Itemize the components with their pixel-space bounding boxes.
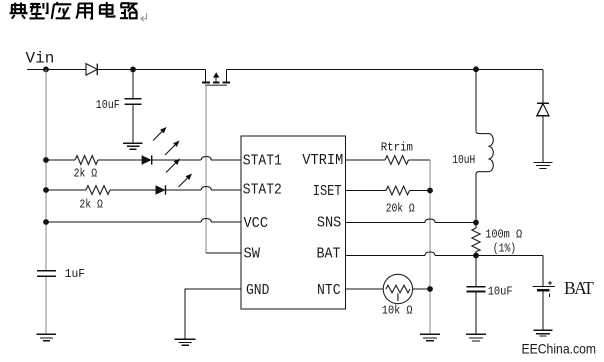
wire STAT1 — [46, 159, 241, 161]
node STAT2 rail — [43, 187, 49, 193]
svg-text:(1%): (1%) — [493, 241, 516, 255]
resistor R3 20k — [386, 186, 410, 195]
resistor R2 2k — [86, 186, 110, 195]
node VCC rail — [43, 219, 49, 225]
wire hop STAT1 over gate lead — [201, 157, 211, 161]
wire Vin rail top — [27, 68, 543, 70]
wire NTC — [346, 288, 431, 290]
wire right vertical bus — [429, 160, 431, 334]
svg-text:BAT: BAT — [317, 245, 341, 262]
ground right bus — [420, 334, 440, 341]
node ISET junction — [427, 188, 433, 194]
inductor L1 10uH — [476, 69, 493, 222]
op-amp U1 IC box — [241, 136, 346, 309]
ground C3 — [466, 334, 486, 341]
battery BT1 — [532, 256, 555, 330]
resistor Rtrim — [385, 156, 409, 165]
svg-text:2k Ω: 2k Ω — [74, 166, 98, 180]
wire left rail — [45, 69, 47, 270]
LED D4 arrows — [166, 160, 191, 188]
transistor Q1 PMOS — [202, 69, 230, 85]
svg-text:EEChina.com: EEChina.com — [522, 341, 597, 356]
svg-text:VCC: VCC — [244, 215, 269, 232]
svg-text:100m Ω: 100m Ω — [485, 227, 522, 241]
svg-text:GND: GND — [246, 282, 269, 299]
wire SNS — [346, 222, 477, 224]
LED D4 — [156, 185, 166, 194]
ground GND pin — [175, 339, 196, 345]
svg-text:NTC: NTC — [317, 282, 341, 299]
wire BAT — [346, 255, 544, 257]
char 型 — [30, 3, 48, 19]
char 路 — [120, 3, 138, 18]
svg-text:STAT2: STAT2 — [243, 182, 282, 199]
wire STAT2 — [46, 189, 241, 191]
diode D1 — [86, 64, 97, 76]
char 电 — [100, 2, 115, 17]
node BAT junction — [473, 253, 479, 259]
svg-text:2k Ω: 2k Ω — [79, 198, 103, 212]
resistor R1 2k — [75, 156, 98, 165]
char 用 — [76, 4, 92, 19]
wire GND pin — [185, 289, 241, 339]
svg-text:SW: SW — [244, 246, 261, 263]
wire hop STAT2 over gate lead — [201, 187, 211, 191]
LED D3 arrows — [153, 128, 179, 155]
svg-text:10uF: 10uF — [96, 98, 120, 112]
ground D2 — [534, 163, 553, 169]
char 典 — [10, 3, 28, 19]
resistor R4 100m sense — [475, 223, 477, 256]
LED D3 — [142, 155, 152, 164]
wire hop BAT over right bus — [425, 252, 435, 256]
svg-text:20k Ω: 20k Ω — [386, 201, 415, 215]
node L1 top junction — [473, 66, 479, 72]
capacitor C2 1uF — [37, 271, 56, 277]
svg-text:10uH: 10uH — [452, 153, 475, 167]
ground C1 — [123, 143, 142, 149]
wire VTRIM — [346, 159, 431, 161]
node NTC junction — [427, 286, 433, 292]
node C1 junction — [130, 67, 136, 73]
ground C2 — [37, 334, 56, 341]
svg-text:STAT1: STAT1 — [243, 152, 282, 169]
node Vin junction — [43, 67, 49, 73]
wire hop SNS over right bus — [425, 219, 435, 223]
svg-text:10uF: 10uF — [488, 284, 513, 298]
capacitor C3 10uF — [467, 256, 486, 334]
node SNS junction — [473, 220, 479, 226]
char 应 — [52, 2, 72, 19]
svg-text:Vin: Vin — [26, 50, 55, 68]
svg-text:10k Ω: 10k Ω — [382, 304, 413, 318]
wire hop VCC over gate lead — [201, 219, 211, 223]
capacitor C1 10uF — [125, 69, 142, 143]
wire SW — [206, 252, 241, 254]
title 典型应用电路 — [10, 2, 138, 19]
svg-text:ISET: ISET — [313, 183, 342, 200]
wire VCC — [46, 221, 241, 223]
return mark — [141, 13, 147, 21]
diode D2 catch — [537, 69, 549, 162]
wire gate lead vertical — [205, 85, 207, 253]
svg-text:1uF: 1uF — [65, 267, 85, 281]
svg-text:VTRIM: VTRIM — [302, 152, 343, 169]
thermistor RT 10k NTC — [383, 274, 412, 303]
svg-text:BAT: BAT — [564, 278, 594, 298]
ground battery — [534, 330, 553, 336]
svg-text:Rtrim: Rtrim — [381, 141, 413, 155]
node STAT1 rail — [43, 157, 49, 163]
svg-text:SNS: SNS — [317, 214, 341, 231]
wire ISET — [346, 190, 431, 192]
